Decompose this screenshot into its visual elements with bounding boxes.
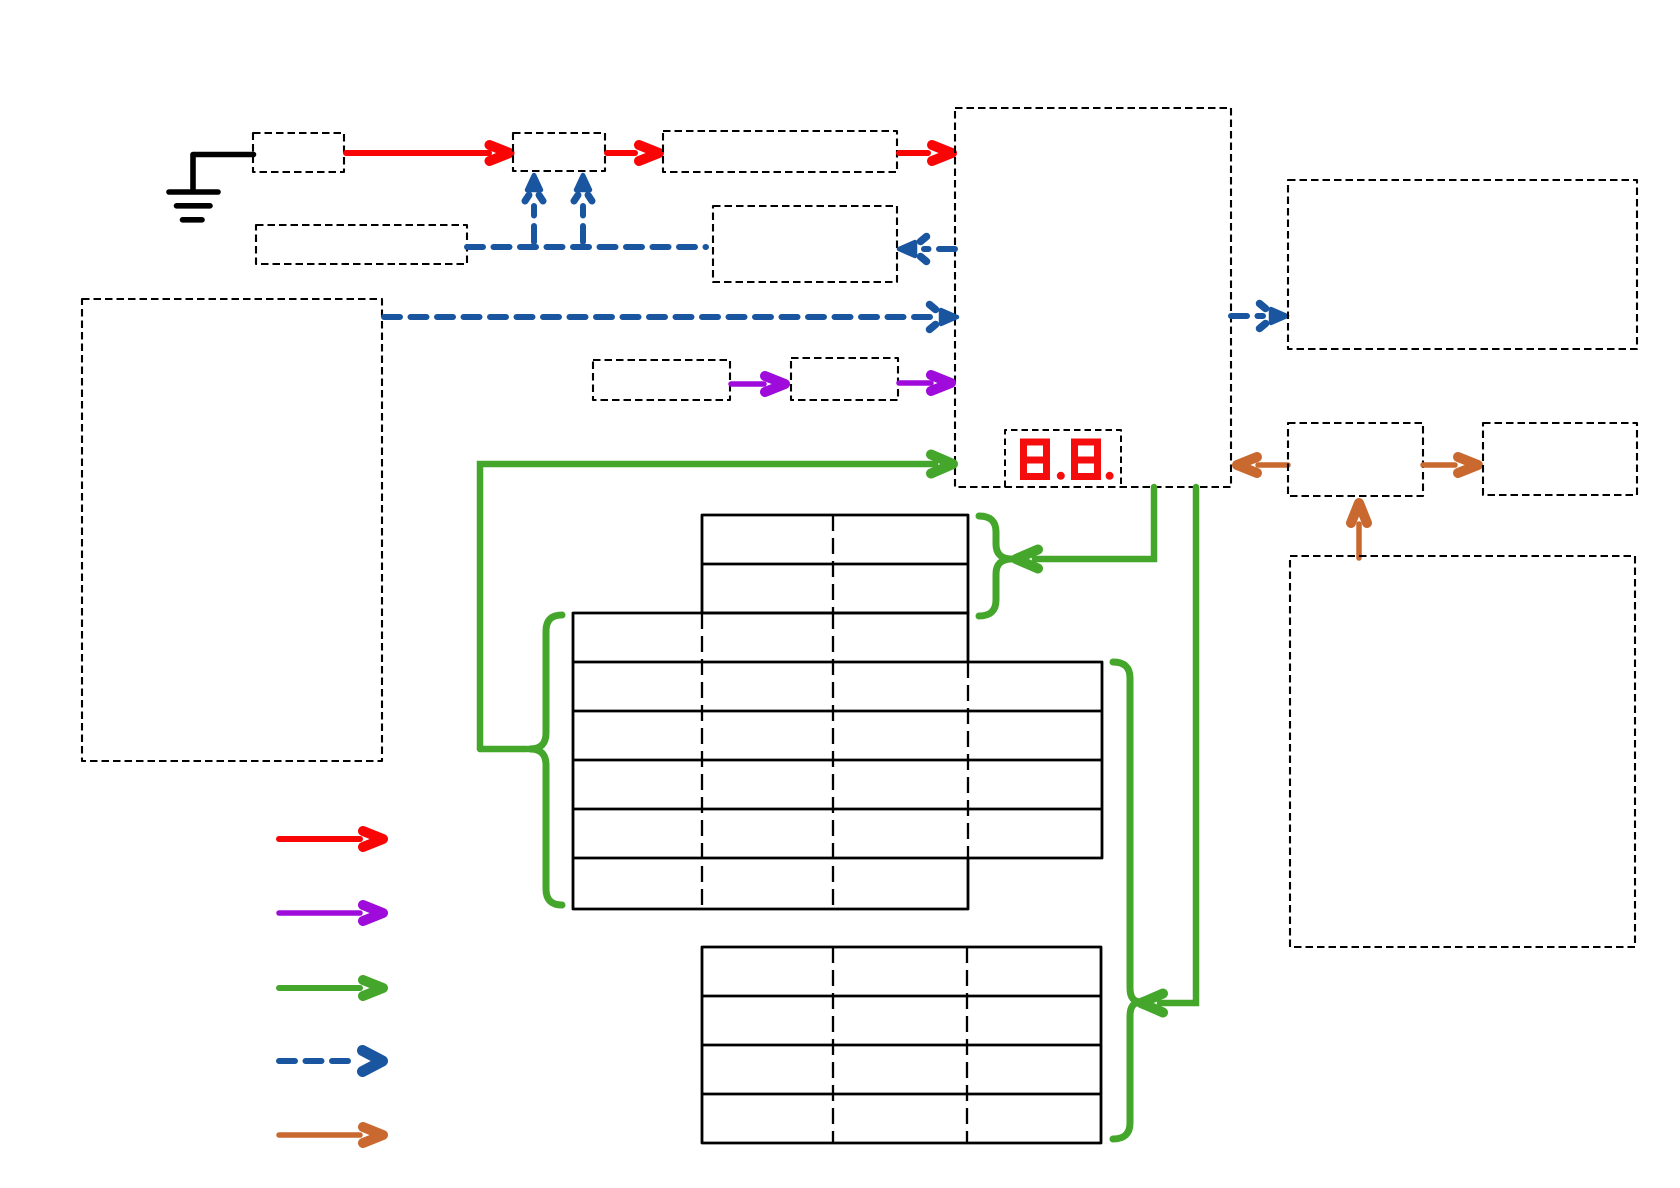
box M2: [1483, 423, 1637, 495]
box S3: [663, 131, 897, 172]
purple arrow A1: [731, 376, 785, 392]
table C: [702, 947, 1101, 1143]
green top brace (table A): [979, 516, 1012, 616]
box TR (top right): [1288, 180, 1637, 349]
purple arrow A2: [899, 375, 951, 391]
7seg dot 1: [1057, 472, 1065, 480]
red arrow A1: [346, 145, 510, 161]
green main arrow into CPU: [480, 455, 953, 750]
7seg digit 2: [1071, 442, 1101, 477]
box S5: [713, 206, 897, 282]
blue arrowhead riser 1: [525, 175, 543, 201]
box P2: [791, 358, 898, 400]
red arrow A3: [899, 145, 952, 161]
7seg dot 2: [1106, 472, 1114, 480]
orange arrow M1 to M2: [1423, 457, 1478, 473]
box BR (bottom right): [1290, 556, 1635, 947]
blue arrowhead riser 2: [574, 175, 592, 201]
box S4: [256, 225, 467, 264]
7seg digit 1: [1020, 442, 1050, 477]
legend red arrow: [279, 831, 383, 847]
box CPU: [955, 108, 1231, 487]
legend orange arrow: [279, 1127, 383, 1143]
blue arrow CPU to S5: [899, 237, 955, 262]
green left brace: [530, 615, 562, 905]
box M1: [1288, 423, 1423, 496]
green right brace (tables B/C): [1113, 662, 1141, 1139]
box 7SEG: [1005, 430, 1121, 487]
table A: [702, 515, 968, 613]
blue net from S4: [467, 206, 706, 247]
table B: [573, 613, 1102, 909]
red arrow A2: [607, 145, 659, 161]
blue arrow CPU to box TR: [1231, 304, 1287, 329]
green link CPU to brace TA: [1016, 487, 1154, 569]
blue long arrow LEFT to CPU: [384, 305, 957, 330]
orange arrow M1 to CPU: [1237, 457, 1288, 473]
legend purple arrow: [279, 905, 383, 921]
legend blue dashed arrow: [279, 1051, 383, 1072]
ground: [169, 155, 254, 220]
box P1: [593, 360, 730, 400]
box S1: [253, 133, 344, 172]
box LEFT (big): [82, 299, 382, 761]
legend green arrow: [279, 980, 383, 996]
green link CPU to brace right: [1141, 487, 1196, 1013]
box S2: [513, 133, 605, 171]
orange arrow BR to M1: [1351, 503, 1367, 558]
